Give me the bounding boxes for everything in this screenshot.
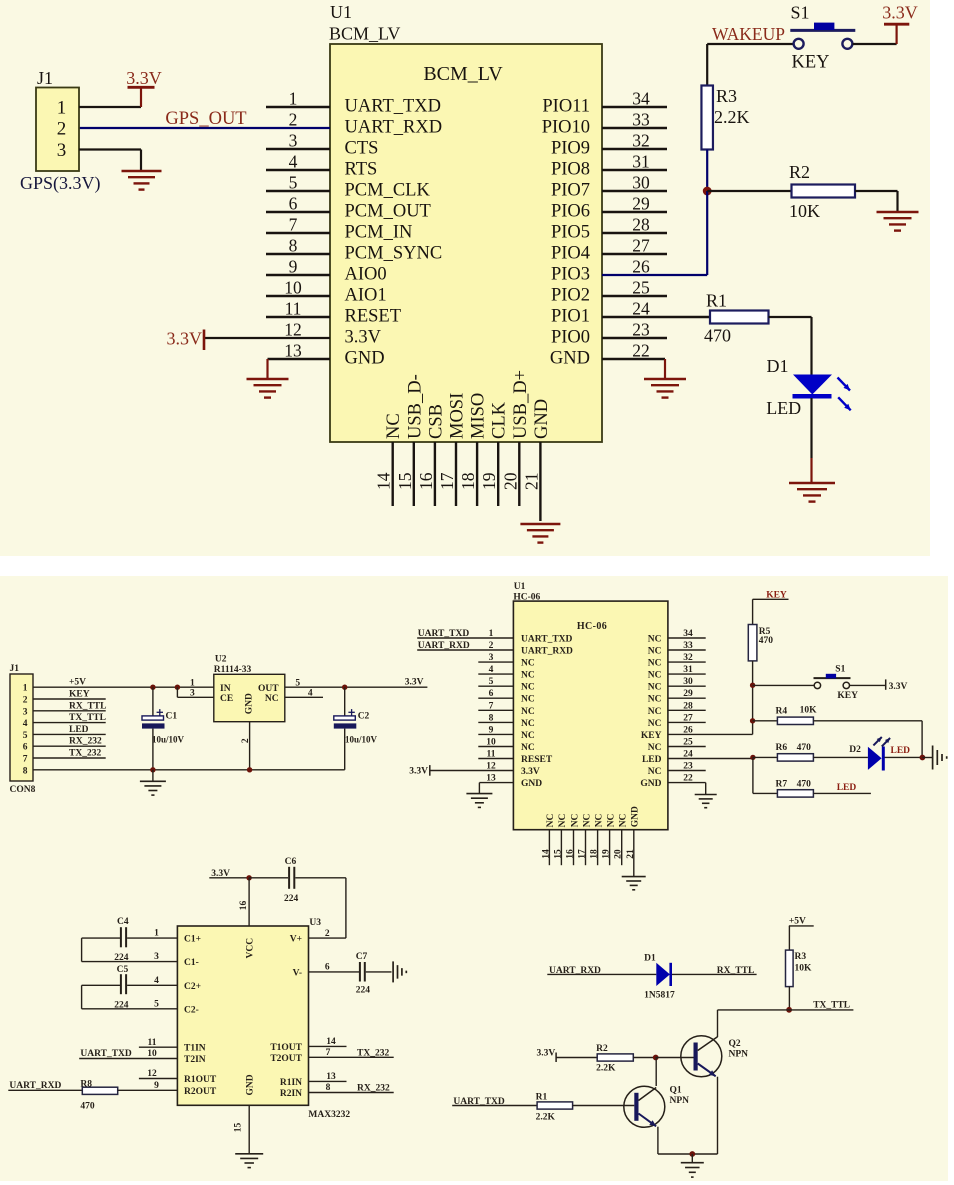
U1 pin 12 (3.3V) line (204, 337, 330, 339)
U1 pin 13 (GND) line (268, 358, 331, 360)
U1 pin 8 (PCM_SYNC) line (266, 253, 330, 255)
svg-text:U3: U3 (309, 918, 321, 928)
svg-text:HC-06: HC-06 (513, 592, 540, 602)
U3 pin 14 stub (309, 1045, 347, 1047)
svg-text:2: 2 (489, 641, 494, 651)
svg-text:D1: D1 (767, 356, 789, 376)
ground at HC-06 pin 22 (695, 795, 717, 808)
transistor Q2 circle (681, 1036, 722, 1077)
transistor Q2 emitter arrow (698, 1064, 716, 1077)
svg-text:NC: NC (521, 671, 535, 681)
U1 pin 26 (PIO3) line (602, 274, 707, 276)
svg-text:5: 5 (489, 677, 494, 687)
svg-text:NPN: NPN (670, 1096, 690, 1106)
svg-text:3: 3 (154, 952, 159, 962)
svg-text:NC: NC (648, 671, 662, 681)
svg-text:11: 11 (487, 750, 496, 760)
switch S1 left contact (794, 39, 804, 49)
svg-text:8: 8 (326, 1083, 331, 1093)
svg-text:VCC: VCC (245, 938, 255, 959)
svg-text:27: 27 (632, 236, 650, 256)
LED D1 triangle (793, 375, 832, 395)
svg-text:3.3V: 3.3V (537, 1048, 556, 1058)
svg-text:GND: GND (345, 349, 385, 369)
wire down to R7 (752, 757, 754, 793)
U1 pin22 gnd drop (664, 359, 666, 379)
svg-text:R2OUT: R2OUT (184, 1087, 217, 1097)
svg-text:470: 470 (759, 636, 774, 646)
svg-text:PIO2: PIO2 (551, 286, 590, 306)
svg-text:3: 3 (489, 653, 494, 663)
svg-text:LED: LED (642, 755, 662, 765)
svg-text:3.3V: 3.3V (882, 3, 918, 23)
R6 wire right to D2 (813, 756, 868, 758)
HC-06 pin 10 line (478, 746, 513, 748)
J1 CON8 pin 4 wire (33, 722, 106, 724)
svg-text:18: 18 (458, 472, 478, 490)
U1 pin 7 (PCM_IN) line (266, 232, 330, 234)
svg-text:RX_TTL: RX_TTL (69, 701, 106, 711)
U3 pin 12 wire (139, 1078, 178, 1080)
svg-text:3: 3 (190, 689, 195, 699)
svg-text:24: 24 (632, 299, 650, 319)
junction dot TX_TTL (786, 1007, 792, 1013)
R6 wire left (753, 756, 778, 758)
chip U3 MAX3232 body (177, 926, 308, 1105)
HC-06 pin 12 line (430, 770, 514, 772)
switch S1 bottom bar (814, 677, 851, 679)
svg-text:13: 13 (326, 1072, 336, 1082)
svg-text:32: 32 (632, 131, 650, 151)
S1 right wire (850, 684, 886, 686)
ground at R2 (877, 212, 919, 231)
svg-text:PIO10: PIO10 (542, 118, 590, 138)
svg-text:NC: NC (546, 813, 556, 827)
R1 wire to Q1 base (573, 1105, 635, 1107)
svg-text:16: 16 (239, 901, 249, 911)
C6 wire down to V+ (345, 878, 347, 938)
LED pin junction dot (750, 755, 755, 760)
svg-text:R2: R2 (789, 162, 810, 182)
svg-text:10: 10 (284, 278, 302, 298)
svg-text:BCM_LV: BCM_LV (329, 24, 400, 44)
svg-text:PIO6: PIO6 (551, 202, 590, 222)
R3 wire to TX_TTL node (788, 987, 790, 1010)
svg-text:NC: NC (648, 707, 662, 717)
U1 pin 15 (USB_D-) stub (413, 442, 415, 506)
svg-text:TX_232: TX_232 (69, 749, 101, 759)
junction dot 3.3V/C6 (246, 875, 251, 880)
svg-text:3.3V: 3.3V (409, 767, 428, 777)
svg-text:30: 30 (632, 173, 650, 193)
switch S1 bottom button (826, 674, 836, 679)
R5 wire down to KEY pin (752, 661, 754, 735)
+5V stem to R3 (788, 926, 790, 950)
resistor R5 body (748, 625, 757, 661)
svg-text:UART_TXD: UART_TXD (80, 1049, 132, 1059)
svg-text:2: 2 (289, 110, 298, 130)
svg-text:2: 2 (241, 738, 251, 743)
svg-text:4: 4 (489, 665, 494, 675)
top schematic background (0, 0, 930, 556)
svg-text:R1IN: R1IN (280, 1078, 302, 1088)
power 3.3V at S1 bar (884, 23, 909, 26)
U1 pin 2 (UART_RXD) line (79, 127, 330, 129)
U2 GND pin 2 wire (249, 722, 251, 770)
svg-text:T2IN: T2IN (184, 1055, 206, 1065)
svg-text:22: 22 (683, 774, 693, 784)
svg-text:5: 5 (295, 678, 300, 688)
R7 wire right (813, 792, 871, 794)
connector J1 body (36, 88, 79, 172)
HC-06 pin 19 stub (609, 830, 611, 866)
UART_RXD wire to D1 (547, 973, 656, 975)
LED D1 arrow 1 (838, 378, 851, 391)
R8 wire to U3 pin 9 (118, 1089, 178, 1091)
svg-text:+5V: +5V (69, 678, 86, 688)
svg-text:C1-: C1- (184, 958, 199, 968)
svg-text:GPS(3.3V): GPS(3.3V) (20, 173, 101, 194)
svg-text:3.3V: 3.3V (405, 678, 424, 688)
svg-text:3.3V: 3.3V (889, 682, 908, 692)
svg-text:NC: NC (648, 647, 662, 657)
HC-06 pin 25 line (668, 746, 706, 748)
svg-text:26: 26 (683, 725, 693, 735)
svg-text:AIO0: AIO0 (345, 265, 387, 285)
resistor R1 body (710, 311, 769, 324)
svg-text:U1: U1 (330, 2, 352, 22)
wire down to Q2 collector (717, 1010, 719, 1037)
svg-text:CTS: CTS (345, 139, 379, 159)
transistor Q2 collector line (698, 1037, 718, 1051)
svg-text:RTS: RTS (345, 160, 378, 180)
svg-text:27: 27 (683, 713, 693, 723)
svg-text:NC: NC (648, 695, 662, 705)
transistor Q1 emitter arrow (639, 1114, 657, 1127)
svg-text:PCM_SYNC: PCM_SYNC (345, 244, 443, 264)
svg-text:C1+: C1+ (184, 935, 201, 945)
HC-06 pin 14 stub (548, 830, 550, 866)
svg-text:KEY: KEY (792, 53, 830, 73)
svg-text:NC: NC (648, 743, 662, 753)
svg-text:GPS_OUT: GPS_OUT (165, 109, 246, 129)
C4 left lead (82, 937, 120, 939)
junction dot S1 branch (750, 683, 755, 688)
HC-06 pin 32 line (668, 661, 706, 663)
svg-text:31: 31 (632, 152, 650, 172)
right-facing ground at C7 (393, 961, 406, 982)
U1 pin 1 (UART_TXD) line (266, 106, 330, 108)
svg-text:12: 12 (147, 1069, 157, 1079)
junction dot D2/gnd (920, 755, 926, 761)
3.3V bar at R2 (555, 1053, 557, 1063)
svg-text:9: 9 (289, 257, 298, 277)
svg-text:UART_TXD: UART_TXD (521, 635, 573, 645)
bottom schematic background (0, 576, 948, 1181)
3.3V bar at S1 bottom (885, 679, 887, 689)
svg-text:T2OUT: T2OUT (270, 1054, 302, 1064)
svg-text:Q2: Q2 (729, 1039, 741, 1049)
U1 pin 4 (RTS) line (266, 169, 330, 171)
capacitor C2 bottom lead (344, 729, 346, 770)
J1 pin 3 drop wire (140, 150, 142, 172)
svg-text:15: 15 (234, 1122, 244, 1132)
junction dot 3.3V/C2 (342, 685, 347, 690)
U3 pin 7 wire (309, 1056, 394, 1058)
ground at U3 pin 15 (235, 1154, 263, 1168)
svg-text:2.2K: 2.2K (596, 1063, 616, 1073)
svg-text:10u/10V: 10u/10V (152, 734, 185, 744)
U1 pin 16 (CSB) stub (434, 442, 436, 506)
svg-text:24: 24 (683, 750, 693, 760)
svg-text:4: 4 (308, 689, 313, 699)
HC-06 pin 29 line (668, 697, 706, 699)
svg-text:NC: NC (648, 659, 662, 669)
svg-text:U2: U2 (215, 654, 227, 664)
U1 pin 24 (PIO1) line (602, 316, 710, 318)
svg-text:GND: GND (631, 806, 641, 827)
resistor R8 body (82, 1087, 117, 1094)
U1 pin 29 (PIO6) line (602, 211, 667, 213)
U3 GND pin 15 wire (248, 1105, 250, 1154)
svg-text:PCM_CLK: PCM_CLK (345, 181, 431, 201)
svg-text:11: 11 (285, 299, 302, 319)
svg-text:19: 19 (602, 849, 612, 859)
svg-text:GND: GND (245, 693, 255, 714)
svg-text:R2IN: R2IN (280, 1089, 302, 1099)
junction dot U2 gnd (247, 767, 252, 772)
HC-06 pin 4 line (478, 673, 513, 675)
svg-text:3: 3 (23, 707, 28, 717)
svg-text:RX_232: RX_232 (69, 737, 102, 747)
capacitor C1 plus sign (157, 709, 163, 715)
svg-text:14: 14 (326, 1037, 336, 1047)
svg-text:R3: R3 (716, 86, 737, 106)
resistor R7 body (777, 790, 813, 797)
resistor R6 body (777, 754, 813, 761)
HC-06 pin 3 line (478, 661, 513, 663)
U2 pin1-pin3 jog wire (176, 687, 178, 697)
svg-text:R3: R3 (795, 952, 807, 962)
svg-text:28: 28 (683, 701, 693, 711)
U1 pin 6 (PCM_OUT) line (266, 211, 330, 213)
R4 wire left (753, 720, 778, 722)
svg-text:1: 1 (23, 684, 28, 694)
svg-text:470: 470 (797, 743, 812, 753)
C1 gnd stem (152, 770, 154, 782)
svg-text:NC: NC (384, 413, 404, 439)
svg-text:LED: LED (837, 783, 857, 793)
HC-06 pin 33 line (668, 649, 706, 651)
svg-text:NC: NC (606, 813, 616, 827)
svg-text:C4: C4 (117, 917, 129, 927)
switch S1 bottom left contact (814, 682, 820, 688)
switch S1 bottom right contact (843, 682, 849, 688)
svg-text:NC: NC (521, 719, 535, 729)
svg-text:1: 1 (190, 678, 195, 688)
svg-text:R7: R7 (776, 779, 788, 789)
LED D1 arrow 2 (838, 397, 851, 410)
svg-text:5: 5 (23, 731, 28, 741)
junction dot C1/gnd rail (150, 767, 155, 772)
HC-06 pin 1 line (417, 637, 513, 639)
3.3V bar at HC-06 pin 12 (429, 765, 431, 776)
svg-text:S1: S1 (790, 3, 809, 23)
resistor R2 body (792, 185, 856, 198)
C4 left vertical (81, 938, 83, 962)
junction dot Q2 base node (653, 1055, 659, 1061)
U3 pin 10 wire (79, 1058, 177, 1060)
power 3.3V at S1 stem (895, 24, 897, 44)
svg-text:R4: R4 (776, 707, 788, 717)
svg-text:GND: GND (521, 779, 542, 789)
junction dot gnd rail (689, 1151, 695, 1157)
U2 pin1 jog junction dot (175, 685, 180, 690)
HC-06 pin 22 line (668, 782, 706, 784)
svg-text:UART_RXD: UART_RXD (521, 647, 573, 657)
svg-text:GND: GND (245, 1074, 255, 1095)
svg-text:NC: NC (648, 683, 662, 693)
HC-06 pin 23 line (668, 770, 706, 772)
U1 pin 22 (GND) line (602, 358, 665, 360)
U1 pin 31 (PIO8) line (602, 169, 667, 171)
svg-text:2: 2 (23, 696, 28, 706)
HC-06 pin 30 line (668, 685, 706, 687)
ground at Q1/Q2 (681, 1163, 704, 1177)
svg-text:NC: NC (582, 813, 592, 827)
HC-06 pin 16 stub (573, 830, 575, 866)
svg-text:14: 14 (374, 472, 394, 490)
svg-text:2: 2 (325, 929, 330, 939)
svg-text:25: 25 (632, 278, 650, 298)
svg-text:T1OUT: T1OUT (270, 1043, 302, 1053)
S1 wire left (753, 684, 815, 686)
svg-text:PIO11: PIO11 (542, 97, 590, 117)
svg-text:1: 1 (154, 929, 159, 939)
ground at U1 pin 22 (644, 379, 686, 398)
R4 wire right (813, 720, 922, 722)
U1 pin 10 (AIO1) line (266, 295, 330, 297)
U2 pin 4 stub (285, 696, 323, 698)
emitter ground rail (658, 1153, 718, 1155)
svg-text:CE: CE (220, 694, 233, 704)
U1 pin13 gnd drop (266, 359, 268, 379)
svg-text:1: 1 (289, 89, 298, 109)
svg-text:CLK: CLK (490, 401, 510, 439)
svg-text:NPN: NPN (729, 1049, 749, 1059)
svg-text:33: 33 (683, 641, 693, 651)
wire node down to Q1 collector (655, 1058, 657, 1087)
power 3.3V at J1 stem (140, 87, 142, 107)
resistor R4 body (777, 717, 813, 724)
UART_RXD wire to R8 (8, 1089, 82, 1091)
transistor Q1 circle (624, 1086, 665, 1127)
svg-text:TX_232: TX_232 (357, 1048, 389, 1058)
svg-text:R8: R8 (80, 1079, 92, 1089)
svg-text:470: 470 (80, 1102, 95, 1112)
U1 pin 21 (GND) stub (539, 442, 541, 521)
svg-text:470: 470 (704, 326, 731, 346)
U3 pin 5 wire (82, 1008, 178, 1010)
chip U1 BCM_LV body (330, 44, 602, 442)
HC-06 pin 31 line (668, 673, 706, 675)
svg-text:KEY: KEY (641, 731, 662, 741)
svg-text:2: 2 (57, 119, 67, 140)
D2 gnd lead (922, 757, 932, 759)
svg-text:NC: NC (648, 635, 662, 645)
U3 pin 11 wire (139, 1046, 178, 1048)
WAKEUP vertical wire (706, 44, 708, 86)
J1 CON8 pin 2 wire (33, 698, 106, 700)
U1 pin 3 (CTS) line (266, 148, 330, 150)
HC-06 pin 20 stub (621, 830, 623, 866)
svg-text:GND: GND (550, 349, 590, 369)
capacitor C2 bottom plate (334, 723, 357, 728)
svg-text:MOSI: MOSI (448, 393, 468, 439)
C6 left lead (249, 877, 288, 879)
svg-text:15: 15 (553, 849, 563, 859)
power 3.3V at U1 pin 12 bar (203, 330, 206, 351)
svg-text:12: 12 (284, 320, 302, 340)
LED D2 cathode bar (882, 747, 885, 771)
R4 wire down to LED node (921, 721, 923, 758)
D1 wire to RX_TTL (672, 973, 757, 975)
svg-text:9: 9 (154, 1081, 159, 1091)
switch S1 button (814, 23, 834, 30)
svg-text:GND: GND (640, 779, 661, 789)
svg-text:R1OUT: R1OUT (184, 1075, 217, 1085)
svg-text:2.2K: 2.2K (536, 1112, 556, 1122)
svg-text:UART_RXD: UART_RXD (345, 118, 443, 138)
HC-06 pin 11 line (478, 758, 513, 760)
svg-text:PIO1: PIO1 (551, 307, 590, 327)
svg-text:20: 20 (500, 472, 520, 490)
wire down to LED D1 (810, 317, 812, 375)
C5 left lead (82, 984, 120, 986)
R1 right wire (769, 316, 812, 318)
U1 pin 32 (PIO9) line (602, 148, 667, 150)
capacitor C1 bottom lead (152, 729, 154, 770)
U3 pin 1 wire (127, 937, 177, 939)
U1 pin 20 (USB_D+) stub (518, 442, 520, 506)
module U1 HC-06 body (513, 601, 668, 830)
J1 CON8 pin 7 wire (33, 757, 106, 759)
svg-text:NC: NC (521, 659, 535, 669)
capacitor C4 plates (121, 927, 126, 947)
svg-text:RX_TTL: RX_TTL (717, 966, 754, 976)
junction dot R4 branch (750, 718, 755, 723)
ground at U1 pin 13 (247, 379, 289, 398)
svg-text:U1: U1 (514, 582, 526, 592)
svg-text:3.3V: 3.3V (126, 68, 162, 88)
TX_TTL wire (718, 1009, 854, 1011)
svg-text:6: 6 (23, 743, 28, 753)
svg-text:25: 25 (683, 738, 693, 748)
svg-text:MISO: MISO (469, 393, 489, 439)
svg-text:PIO4: PIO4 (551, 244, 590, 264)
capacitor C2 top plate (334, 716, 356, 720)
J1 pin 1 wire (79, 106, 141, 108)
svg-text:C6: C6 (285, 857, 297, 867)
svg-text:3.3V: 3.3V (345, 328, 382, 348)
svg-text:14: 14 (541, 849, 551, 859)
diode D1 triangle (656, 963, 670, 986)
wire +5V rail (33, 686, 214, 688)
LED D2 arrow 1 (873, 737, 881, 745)
svg-text:PIO3: PIO3 (551, 265, 590, 285)
svg-text:4: 4 (154, 976, 159, 986)
switch S1 bar (790, 29, 855, 32)
